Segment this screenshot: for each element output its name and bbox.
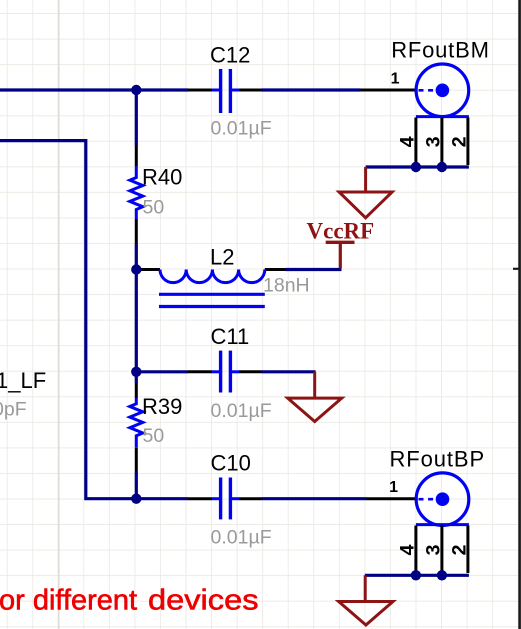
- svg-text:0pF: 0pF: [0, 399, 27, 421]
- ground under RFoutBP: [339, 575, 393, 625]
- svg-text:or different: or different: [0, 585, 137, 617]
- connector RFoutBM: [361, 38, 490, 168]
- junction dot bus top: [131, 85, 141, 95]
- value label 0pF (clipped at left edge): [0, 399, 27, 421]
- capacitor C10: [188, 451, 272, 549]
- wire bottom net C10 output to RFoutBP pin 1: [262, 497, 367, 500]
- capacitor C11: [188, 324, 272, 422]
- ground under RFoutBM: [339, 167, 392, 218]
- svg-text:RFoutBM: RFoutBM: [391, 38, 490, 63]
- wire C11 output to ground: [262, 370, 316, 373]
- inductor L2: [136, 245, 309, 307]
- wire vertical bus junction A to R40: [135, 90, 138, 146]
- wire top net from left edge to C12: [0, 88, 188, 91]
- svg-text:1: 1: [389, 479, 398, 496]
- svg-text:2: 2: [449, 136, 471, 147]
- svg-text:50: 50: [143, 197, 165, 219]
- junction dot RFoutBP pin4: [411, 570, 421, 580]
- wire left bus elbow down to bottom net: [0, 141, 137, 499]
- svg-text:0.01µF: 0.01µF: [211, 118, 272, 140]
- svg-text:50: 50: [143, 425, 165, 447]
- svg-text:3: 3: [423, 136, 445, 147]
- wire R39 to bottom net: [135, 472, 138, 499]
- wire C11 input: [136, 370, 188, 373]
- svg-text:1: 1: [391, 71, 400, 88]
- wire RFoutBM shield pins to ground: [366, 165, 469, 168]
- svg-text:0.01µF: 0.01µF: [211, 400, 272, 422]
- svg-text:VccRF: VccRF: [307, 218, 375, 243]
- svg-text:0.01µF: 0.01µF: [211, 527, 272, 549]
- svg-text:3: 3: [423, 544, 445, 555]
- wire C12 to RFoutBM pin 1: [262, 88, 361, 91]
- wire R40 to R39 through L2 tap: [135, 243, 138, 383]
- junction dot RFoutBM pin3: [437, 162, 447, 172]
- svg-text:2: 2: [449, 544, 471, 555]
- wire L2 output to VccRF: [286, 268, 342, 271]
- resistor R39: [130, 383, 183, 472]
- svg-text:devices: devices: [148, 585, 259, 617]
- junction dot RFoutBP pin3: [437, 570, 447, 580]
- svg-text:RFoutBP: RFoutBP: [390, 447, 486, 472]
- svg-text:R39: R39: [142, 394, 182, 419]
- ground under C11: [288, 372, 342, 422]
- svg-text:L2: L2: [210, 245, 234, 270]
- svg-text:R40: R40: [142, 164, 182, 189]
- power port VccRF: [307, 218, 375, 268]
- svg-text:C11: C11: [211, 324, 250, 349]
- svg-text:C10: C10: [211, 451, 251, 476]
- svg-text:18nH: 18nH: [263, 275, 310, 297]
- svg-text:4: 4: [397, 136, 419, 147]
- svg-text:C12: C12: [210, 43, 250, 68]
- wire RFoutBP shield pins to ground: [365, 574, 469, 577]
- wire bottom net junction to C10: [136, 497, 188, 500]
- capacitor C12: [188, 43, 272, 140]
- label C?1_LF (clipped at left edge): [0, 368, 46, 393]
- svg-text:1_LF: 1_LF: [0, 368, 46, 393]
- junction dot bus L2 tap: [131, 264, 141, 274]
- connector RFoutBP: [366, 447, 485, 576]
- junction dot RFoutBM pin4: [411, 162, 421, 172]
- svg-text:4: 4: [397, 544, 419, 555]
- note text red: [0, 585, 259, 617]
- junction dot bus C11 tap: [131, 367, 141, 377]
- junction dot bus bottom: [131, 494, 141, 504]
- resistor R40: [130, 146, 183, 243]
